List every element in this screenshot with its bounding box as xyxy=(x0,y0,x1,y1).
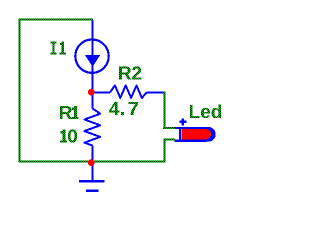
label R1 xyxy=(60,106,79,119)
resistor R2 zigzag xyxy=(110,85,147,98)
junction node A (top, red dot) xyxy=(88,89,95,96)
ground stem xyxy=(91,162,93,181)
wire bottom (left corner to LED return) xyxy=(19,161,166,163)
LED polarity + sign xyxy=(179,118,186,125)
label 10 (R1 value) xyxy=(60,129,77,142)
junction node B (bottom, red dot) xyxy=(88,159,95,166)
resistor R1 zigzag xyxy=(84,109,100,146)
ground bar 2 xyxy=(86,190,99,192)
wire left side xyxy=(19,19,21,163)
label 4.7 (R2 value) xyxy=(109,102,138,115)
wire blue vertical I1 branch xyxy=(91,20,93,92)
wire node to R2 left xyxy=(93,91,111,93)
label R2 xyxy=(119,66,141,79)
label Led xyxy=(190,104,221,118)
LED D1 cathode bar xyxy=(179,127,181,142)
wire node to R1 top xyxy=(91,93,93,109)
wire green LED cathode down to bottom wire xyxy=(164,139,175,163)
wire R2 right to corner xyxy=(147,91,164,93)
LED D1 outline and blue cap xyxy=(174,127,215,142)
wire R1 bottom to bottom node xyxy=(91,146,93,162)
wire green down from R2 to LED anode xyxy=(163,92,175,130)
current source I1 circle xyxy=(75,40,108,73)
ground bar 1 xyxy=(79,180,105,182)
current source I1 arrow triangle xyxy=(85,55,101,67)
wire top (node top-left to I1 top) xyxy=(19,19,94,21)
LED D1 red body fill xyxy=(181,129,211,139)
label I1 xyxy=(50,42,66,55)
